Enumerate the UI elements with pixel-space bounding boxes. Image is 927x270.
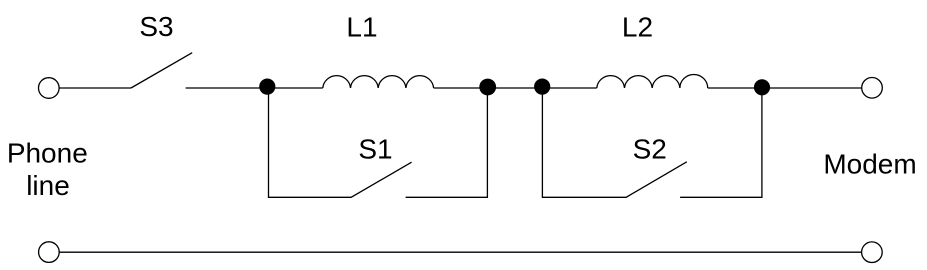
svg-text:L2: L2 — [622, 11, 653, 42]
svg-text:S1: S1 — [358, 134, 392, 165]
svg-text:Modem: Modem — [823, 148, 916, 179]
svg-text:S2: S2 — [633, 133, 667, 164]
svg-text:Phone: Phone — [7, 138, 88, 169]
svg-text:L1: L1 — [346, 11, 377, 42]
svg-text:line: line — [26, 170, 70, 201]
svg-text:S3: S3 — [139, 11, 173, 42]
